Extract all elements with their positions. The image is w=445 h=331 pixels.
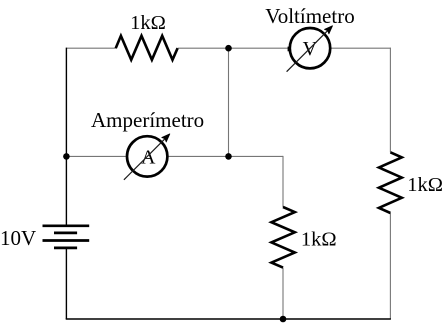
node on bottom wire: [280, 316, 287, 323]
resistor R3 1kOhm (right vertical zigzag): [379, 152, 402, 213]
svg-text:V: V: [303, 38, 318, 60]
wire vertical from middle resistor bottom: [282, 268, 284, 319]
wire top-left horizontal segment: [66, 47, 115, 49]
ammeter needle: [124, 134, 170, 180]
resistor R2 1kOhm (middle vertical zigzag): [271, 207, 294, 268]
wire left vertical lower (battery to bottom): [65, 248, 67, 319]
voltmeter U2 circle: [290, 28, 330, 68]
wire ammeter row right segment: [169, 155, 283, 157]
wire right vertical upper: [389, 48, 391, 153]
node A junction dot (top): [225, 45, 232, 52]
svg-text:Voltímetro: Voltímetro: [265, 4, 354, 28]
svg-text:1kΩ: 1kΩ: [407, 174, 443, 196]
wire top middle segment (resistor to voltmeter): [178, 47, 289, 49]
node on left wire at ammeter row: [63, 153, 70, 160]
resistor R1 1kOhm (top horizontal zigzag): [116, 36, 178, 60]
ammeter U1 circle: [127, 136, 167, 176]
voltmeter left terminal nub: [288, 47, 291, 52]
wire right vertical lower: [389, 213, 391, 319]
wire left vertical upper (to battery): [65, 48, 67, 226]
svg-text:10V: 10V: [0, 226, 36, 250]
node B junction dot (ammeter row): [225, 153, 232, 160]
svg-text:1kΩ: 1kΩ: [130, 12, 166, 34]
svg-text:1kΩ: 1kΩ: [301, 228, 337, 250]
wire vertical from node A down to node B: [228, 48, 230, 156]
voltmeter needle: [287, 26, 333, 72]
wire bottom horizontal: [66, 318, 391, 320]
svg-text:Amperímetro: Amperímetro: [91, 108, 204, 132]
wire top right segment (voltmeter to corner): [331, 47, 391, 49]
wire ammeter row left segment: [66, 155, 125, 157]
battery 10V: [43, 226, 90, 248]
wire vertical to middle resistor top: [282, 156, 284, 207]
